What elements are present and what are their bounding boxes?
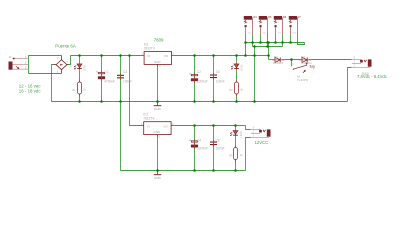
svg-text:7812TV: 7812TV (144, 47, 156, 51)
svg-text:D3: D3 (274, 55, 278, 59)
svg-text:7,8Vdc - 8,4Vdc: 7,8Vdc - 8,4Vdc (357, 74, 387, 79)
svg-text:VI: VI (147, 54, 150, 58)
svg-text:12VCC: 12VCC (255, 140, 269, 145)
svg-text:1: 1 (141, 52, 143, 56)
svg-text:100nF: 100nF (216, 146, 225, 150)
svg-text:4700uF: 4700uF (104, 79, 115, 83)
svg-text:GND: GND (154, 60, 162, 64)
svg-text:2200uF: 2200uF (197, 79, 208, 83)
svg-text:2200uF: 2200uF (197, 146, 208, 150)
svg-text:1k: 1k (240, 153, 243, 157)
svg-text:LED2: LED2 (239, 64, 243, 71)
svg-text:1N4004: 1N4004 (273, 61, 284, 65)
svg-text:C2: C2 (197, 70, 201, 74)
svg-text:J1: J1 (9, 55, 13, 59)
svg-text:Puente 6A: Puente 6A (55, 43, 76, 48)
svg-text:3: 3 (172, 52, 174, 56)
svg-text:LED1: LED1 (82, 64, 86, 71)
svg-text:VO: VO (164, 54, 169, 58)
svg-text:R3: R3 (229, 153, 233, 157)
svg-text:C3: C3 (123, 70, 127, 74)
svg-text:+: + (67, 61, 69, 64)
svg-text:100nF: 100nF (123, 79, 132, 83)
svg-text:7812TV: 7812TV (143, 117, 155, 121)
svg-text:1k: 1k (83, 87, 86, 91)
svg-text:VO: VO (163, 124, 168, 128)
svg-text:D4: D4 (301, 55, 305, 59)
svg-text:7809: 7809 (154, 37, 164, 42)
svg-text:1: 1 (292, 62, 294, 66)
svg-text:R7: R7 (298, 16, 302, 19)
svg-text:R6: R6 (283, 16, 287, 19)
svg-text:C8: C8 (216, 139, 220, 143)
svg-text:R5: R5 (268, 16, 272, 19)
svg-text:VI: VI (147, 124, 150, 128)
svg-text:R4: R4 (254, 16, 258, 19)
svg-text:C4: C4 (197, 139, 201, 143)
svg-text:100nF: 100nF (216, 79, 225, 83)
svg-text:16 - 18 vdc: 16 - 18 vdc (19, 89, 42, 94)
svg-text:R2: R2 (229, 88, 233, 92)
svg-text:2: 2 (57, 56, 59, 60)
svg-text:3ag: 3ag (309, 65, 315, 69)
svg-text:C1: C1 (104, 70, 108, 74)
svg-text:R1: R1 (72, 88, 76, 92)
svg-text:C6: C6 (216, 70, 220, 74)
svg-text:GND: GND (154, 130, 162, 134)
svg-text:LED3: LED3 (239, 131, 243, 138)
svg-text:TL32PO: TL32PO (297, 78, 309, 82)
svg-text:1k: 1k (240, 87, 243, 91)
